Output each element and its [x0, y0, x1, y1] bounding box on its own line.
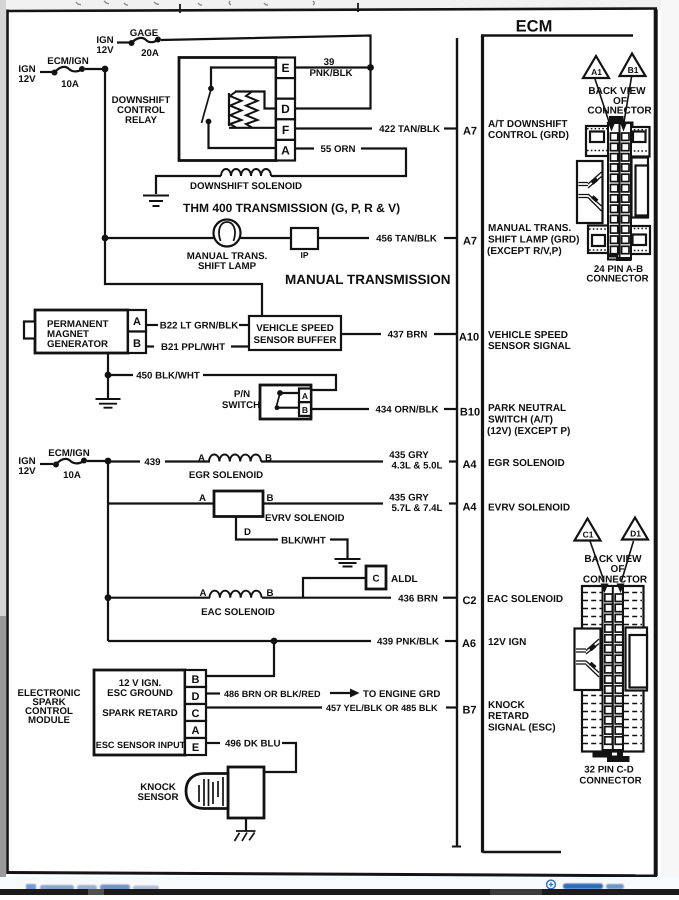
svg-text:(EXCEPT R/V,P): (EXCEPT R/V,P) — [487, 246, 562, 257]
wire B : B21 PPL/WHT — [146, 345, 154, 347]
svg-text:B22 LT GRN/BLK: B22 LT GRN/BLK — [160, 321, 238, 332]
corner block BR — [630, 226, 651, 254]
svg-text:IP: IP — [300, 250, 308, 260]
svg-text:439 PNK/BLK: 439 PNK/BLK — [377, 637, 439, 648]
svg-text:EVRV SOLENOID: EVRV SOLENOID — [488, 503, 570, 514]
C wire : 457 — [206, 706, 322, 708]
pin ladder — [603, 586, 624, 750]
svg-text:CONNECTOR: CONNECTOR — [587, 106, 652, 117]
svg-text:PARK NEUTRAL: PARK NEUTRAL — [488, 403, 566, 414]
node: lamp junction on left bus — [102, 235, 109, 242]
wire buffer to ECM A10 : 437 BRN — [341, 333, 381, 335]
svg-text:435 GRY: 435 GRY — [389, 493, 429, 504]
svg-text:CONNECTOR: CONNECTOR — [579, 776, 641, 787]
svg-text:CONNECTOR: CONNECTOR — [586, 274, 648, 285]
svg-text:RETARD: RETARD — [488, 711, 529, 722]
svg-text:SENSOR BUFFER: SENSOR BUFFER — [254, 335, 337, 346]
relay internal switch — [211, 68, 276, 87]
EVRV branch — [108, 502, 214, 504]
ALDL — [366, 566, 386, 589]
svg-text:EVRV SOLENOID: EVRV SOLENOID — [265, 513, 345, 524]
svg-text:A: A — [198, 453, 205, 464]
D wire : 486 — [206, 692, 220, 694]
svg-text:457 YEL/BLK OR 485 BLK: 457 YEL/BLK OR 485 BLK — [326, 703, 438, 713]
middle right flange — [626, 628, 648, 691]
outer frame — [8, 9, 658, 12]
corner block TR — [630, 127, 650, 157]
lamp: manual trans shift lamp — [214, 220, 241, 247]
svg-text:SWITCH: SWITCH — [222, 400, 260, 411]
wire 439 — [108, 460, 140, 462]
middle right flange — [632, 158, 649, 218]
svg-text:496 DK BLU: 496 DK BLU — [225, 739, 280, 750]
svg-text:A10: A10 — [459, 332, 479, 344]
svg-text:D1: D1 — [630, 529, 641, 539]
bottom keyway — [608, 254, 631, 262]
middle left block — [575, 629, 601, 691]
12V IGN row — [108, 640, 371, 642]
svg-text:ESC GROUND: ESC GROUND — [107, 688, 173, 699]
EVRV solenoid box — [214, 491, 263, 517]
svg-text:MODULE: MODULE — [28, 715, 71, 726]
E wire : 496 DK BLU — [206, 742, 220, 744]
vehicle speed sensor buffer — [249, 316, 341, 350]
lower left bus — [107, 461, 109, 641]
rail line — [456, 38, 458, 846]
svg-text:20A: 20A — [141, 48, 159, 59]
corner block TL — [586, 126, 609, 156]
svg-text:F: F — [282, 123, 289, 137]
svg-text:D: D — [281, 102, 290, 116]
svg-text:SPARK RETARD: SPARK RETARD — [102, 708, 178, 719]
node: junction of E wire — [367, 64, 374, 71]
node: main bus junction — [102, 66, 109, 73]
svg-text:EAC SOLENOID: EAC SOLENOID — [201, 607, 275, 618]
downshift solenoid — [156, 176, 221, 194]
svg-text:450 BLK/WHT: 450 BLK/WHT — [136, 371, 200, 382]
svg-text:DOWNSHIFT SOLENOID: DOWNSHIFT SOLENOID — [190, 181, 302, 192]
middle left block — [577, 161, 603, 223]
svg-text:439: 439 — [144, 457, 161, 468]
svg-text:D: D — [244, 527, 251, 538]
svg-text:32 PIN C-D: 32 PIN C-D — [584, 765, 634, 776]
svg-text:436 BRN: 436 BRN — [398, 594, 438, 605]
svg-text:VEHICLE SPEED: VEHICLE SPEED — [256, 323, 334, 334]
triangle A1 — [583, 56, 609, 78]
svg-text:A/T DOWNSHIFT: A/T DOWNSHIFT — [488, 119, 567, 130]
svg-text:A: A — [133, 316, 141, 328]
svg-text:E: E — [192, 742, 199, 754]
P/N switch box — [260, 385, 311, 419]
svg-text:B: B — [133, 338, 141, 350]
wire — [117, 41, 129, 43]
svg-text:SENSOR SIGNAL: SENSOR SIGNAL — [488, 341, 571, 352]
ECM left edge — [481, 35, 484, 853]
wire E to junction — [295, 66, 371, 68]
svg-text:SIGNAL (ESC): SIGNAL (ESC) — [488, 723, 556, 734]
triangle C1 — [575, 519, 601, 541]
corner block BL — [588, 226, 609, 254]
wire F to ECM A7 : 422 TAN/BLK — [295, 127, 372, 129]
svg-text:437 BRN: 437 BRN — [388, 330, 428, 341]
svg-text:A7: A7 — [463, 126, 477, 138]
PMG ground — [107, 353, 109, 398]
ground (BLK/WHT) — [335, 559, 361, 567]
svg-text:12V: 12V — [18, 466, 36, 477]
svg-text:A: A — [281, 144, 290, 158]
svg-text:C: C — [373, 574, 380, 585]
svg-text:A4: A4 — [462, 459, 477, 471]
svg-text:E: E — [281, 61, 289, 75]
pin ladder — [608, 123, 631, 260]
wire to lamp — [105, 237, 214, 239]
terminal strip E _ D F A — [276, 58, 295, 161]
svg-text:C: C — [192, 708, 200, 720]
svg-text:MANUAL TRANS.: MANUAL TRANS. — [488, 223, 571, 234]
svg-text:39: 39 — [324, 57, 335, 68]
svg-text:ESC SENSOR INPUT: ESC SENSOR INPUT — [96, 740, 186, 750]
arrowheads — [601, 584, 609, 594]
ECM top line — [481, 34, 633, 37]
svg-text:434 ORN/BLK: 434 ORN/BLK — [376, 405, 439, 416]
svg-text:EAC SOLENOID: EAC SOLENOID — [487, 594, 563, 605]
ground (downshift solenoid) — [143, 196, 169, 207]
svg-text:KNOCK: KNOCK — [488, 700, 525, 711]
svg-text:CONTROL (GRD): CONTROL (GRD) — [488, 130, 569, 141]
svg-text:SHIFT LAMP (GRD): SHIFT LAMP (GRD) — [488, 235, 579, 246]
fuse ECM/IGN 10A — [52, 70, 58, 76]
svg-text:A: A — [200, 588, 207, 599]
svg-text:12V: 12V — [18, 74, 36, 85]
cut-off glyph remnants at top — [76, 1, 314, 5]
svg-text:D: D — [192, 691, 200, 703]
svg-text:A: A — [192, 725, 200, 737]
svg-text:486 BRN OR BLK/RED: 486 BRN OR BLK/RED — [224, 689, 321, 699]
wire down to ESC B — [206, 641, 274, 676]
triangle B1 — [620, 54, 646, 77]
wire B10 : 434 ORN/BLK — [311, 408, 369, 410]
svg-text:12V IGN: 12V IGN — [488, 637, 526, 648]
relay coil — [235, 92, 276, 109]
wire: left bus down to lamp row — [104, 69, 106, 238]
svg-text:ECM/IGN: ECM/IGN — [48, 448, 89, 459]
svg-text:ECM: ECM — [516, 18, 553, 36]
svg-text:55 ORN: 55 ORN — [321, 144, 356, 155]
wire — [40, 71, 52, 73]
ESC box — [94, 670, 185, 755]
svg-text:SENSOR: SENSOR — [138, 792, 179, 803]
top keyway — [609, 116, 634, 129]
svg-text:MANUAL TRANSMISSION: MANUAL TRANSMISSION — [285, 272, 451, 287]
svg-text:SHIFT LAMP: SHIFT LAMP — [198, 261, 257, 272]
triangle D1 — [622, 518, 648, 540]
svg-text:A: A — [302, 391, 308, 401]
svg-text:GAGE: GAGE — [130, 28, 159, 39]
svg-text:B10: B10 — [460, 407, 480, 419]
svg-text:ALDL: ALDL — [391, 574, 418, 585]
svg-text:VEHICLE SPEED: VEHICLE SPEED — [488, 330, 568, 341]
wire lamp to IP — [241, 237, 291, 239]
IP box — [291, 228, 318, 249]
svg-text:EGR SOLENOID: EGR SOLENOID — [488, 458, 565, 469]
fuse GAGE 20A — [129, 40, 135, 46]
connector body top section — [582, 586, 644, 752]
arrowheads over ladder — [608, 122, 616, 132]
arrows to pins — [595, 79, 610, 125]
svg-text:B: B — [267, 493, 274, 504]
svg-text:BLK/WHT: BLK/WHT — [281, 536, 326, 547]
svg-text:10A: 10A — [63, 470, 81, 481]
svg-text:THM 400 TRANSMISSION (G, P, R: THM 400 TRANSMISSION (G, P, R & V) — [183, 201, 400, 215]
svg-text:435 GRY: 435 GRY — [389, 450, 429, 461]
svg-text:RELAY: RELAY — [125, 115, 157, 126]
svg-text:B1: B1 — [628, 65, 639, 75]
relay box — [179, 58, 276, 161]
bottom keyway — [593, 751, 613, 758]
svg-text:12V: 12V — [96, 45, 114, 56]
switch interior — [277, 390, 283, 396]
wire from GAGE to relay D via vertical — [161, 36, 371, 109]
svg-text:TO ENGINE GRD: TO ENGINE GRD — [363, 689, 440, 700]
svg-text:ECM/IGN: ECM/IGN — [47, 56, 88, 67]
fuse ECM/IGN 10A (lower) — [53, 462, 59, 468]
svg-text:C1: C1 — [583, 530, 594, 540]
knock sensor body — [228, 767, 264, 818]
left bus continues to speed buffer — [105, 238, 262, 316]
node: EGR junction — [105, 458, 112, 465]
svg-text:CONNECTOR: CONNECTOR — [583, 575, 648, 586]
wire IP to ECM A7 : 456 TAN/BLK — [318, 237, 369, 239]
svg-text:A6: A6 — [462, 638, 476, 650]
descriptions — [487, 119, 579, 734]
arrows — [590, 541, 604, 581]
EAC branch — [105, 594, 112, 601]
svg-text:C2: C2 — [462, 595, 476, 607]
svg-text:4.3L & 5.0L: 4.3L & 5.0L — [392, 461, 443, 472]
knock sensor ground — [245, 818, 247, 831]
svg-text:PNK/BLK: PNK/BLK — [309, 68, 352, 79]
svg-text:SWITCH (A/T): SWITCH (A/T) — [488, 415, 553, 426]
svg-text:B21 PPL/WHT: B21 PPL/WHT — [161, 342, 225, 353]
svg-text:A7: A7 — [463, 236, 477, 248]
svg-text:EGR SOLENOID: EGR SOLENOID — [189, 470, 263, 481]
PMG box — [35, 310, 128, 353]
svg-text:10A: 10A — [61, 79, 79, 90]
tick marks crossing top border — [180, 3, 358, 13]
svg-text:(12V) (EXCEPT P): (12V) (EXCEPT P) — [487, 426, 570, 437]
wire A : B22 LT GRN/BLK — [146, 324, 158, 326]
svg-text:A4: A4 — [462, 502, 477, 514]
svg-text:A1: A1 — [591, 67, 602, 77]
svg-text:B: B — [192, 674, 200, 686]
wire 450 BLK/WHT — [108, 374, 133, 376]
EVRV D stub — [236, 517, 278, 540]
svg-text:422 TAN/BLK: 422 TAN/BLK — [379, 124, 440, 135]
svg-text:B7: B7 — [462, 705, 476, 717]
wire to junction — [85, 68, 105, 70]
svg-text:GENERATOR: GENERATOR — [47, 339, 108, 350]
svg-text:5.7L & 7.4L: 5.7L & 7.4L — [392, 503, 443, 514]
svg-text:A: A — [199, 493, 206, 504]
svg-text:B: B — [302, 405, 308, 415]
svg-text:P/N: P/N — [234, 389, 250, 400]
svg-text:OF: OF — [611, 564, 625, 575]
PMG terminals A B — [128, 310, 146, 332]
wire A : 55 ORN — [295, 147, 314, 149]
svg-text:456 TAN/BLK: 456 TAN/BLK — [376, 234, 437, 245]
